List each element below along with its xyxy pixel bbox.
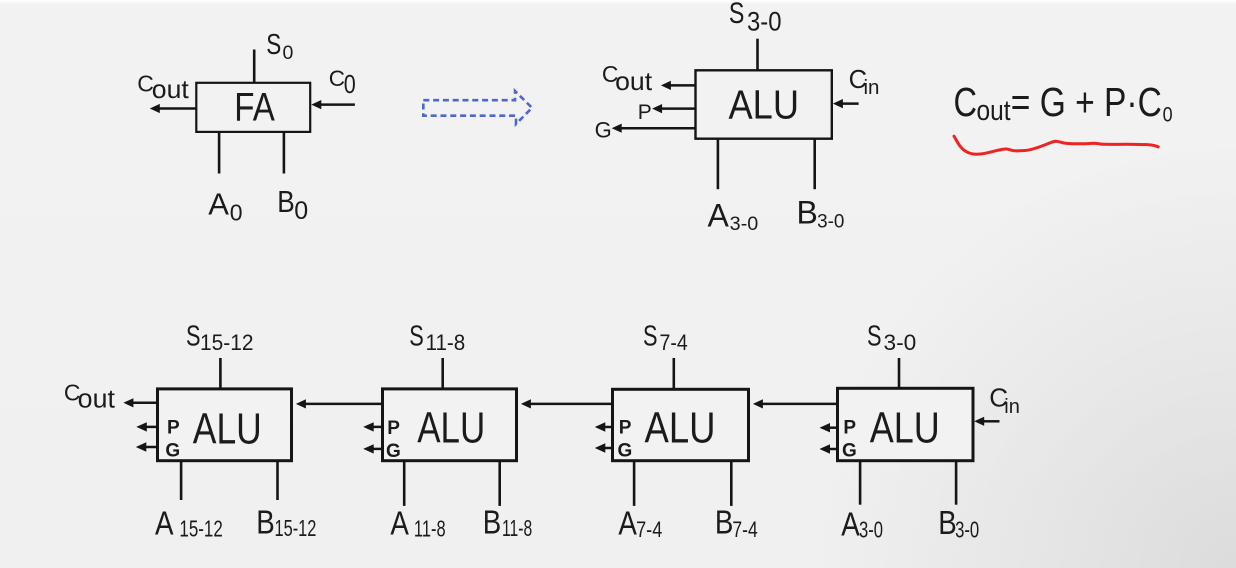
- svg-text:0: 0: [230, 199, 243, 225]
- wire arrow G 3: [595, 443, 613, 452]
- ALU box 3 (bits 7-4): [613, 389, 749, 460]
- label A7-4: [618, 504, 662, 542]
- svg-text:C: C: [329, 66, 345, 91]
- label C0: [329, 66, 356, 99]
- svg-text:S: S: [266, 29, 281, 61]
- label A 15-12: [155, 504, 223, 541]
- wire S0 stub: [253, 50, 256, 85]
- svg-text:S: S: [643, 321, 658, 353]
- label Cout (chain): [64, 379, 115, 413]
- svg-text:3-0: 3-0: [747, 7, 782, 37]
- svg-text:3-0: 3-0: [884, 330, 917, 355]
- label Cin (top ALU): [849, 66, 880, 99]
- svg-text:out: out: [615, 66, 653, 96]
- svg-text:S: S: [729, 0, 745, 30]
- wire arrow Cin (chain): [974, 417, 999, 426]
- svg-text:A: A: [708, 197, 730, 233]
- wire carry arrow box3 to box2: [521, 399, 613, 408]
- label Cout (top ALU): [602, 61, 653, 96]
- ALU box 1 (bits 15-12): [158, 389, 292, 461]
- svg-text:3-0: 3-0: [955, 516, 979, 542]
- label A0: [208, 187, 242, 226]
- wire arrow Cout (FA): [150, 104, 196, 113]
- ALU box 4 (bits 3-0): [838, 388, 974, 460]
- wire A3-0 stub (top): [717, 139, 720, 189]
- wire arrow G (top ALU): [612, 124, 696, 133]
- label A11-8: [390, 504, 445, 541]
- label B3-0 (top): [797, 194, 845, 232]
- svg-text:P: P: [167, 418, 180, 439]
- svg-text:G: G: [842, 441, 857, 462]
- wire arrow C0 into FA: [311, 100, 355, 109]
- wire S3-0 stub: [756, 39, 759, 71]
- label B0: [277, 184, 308, 225]
- svg-text:B: B: [277, 184, 295, 219]
- wire arrow P (top ALU): [652, 104, 696, 113]
- blue dashed block arrow: [423, 91, 532, 124]
- svg-text:in: in: [864, 76, 880, 99]
- label S3-0 (chain): [867, 321, 916, 356]
- svg-text:G: G: [386, 441, 401, 462]
- svg-text:7-4: 7-4: [732, 517, 757, 542]
- svg-text:A: A: [208, 187, 229, 222]
- svg-text:15-12: 15-12: [275, 515, 317, 541]
- svg-text:out: out: [78, 386, 115, 414]
- svg-text:G: G: [165, 441, 180, 462]
- label A3-0 (top): [708, 197, 759, 235]
- wire S3-0 stub (chain): [898, 358, 901, 389]
- svg-text:S: S: [409, 321, 424, 353]
- ALU box 2 (bits 11-8): [383, 389, 517, 461]
- svg-text:7-4: 7-4: [660, 330, 688, 355]
- label S15-12: [186, 321, 254, 356]
- svg-text:ALU: ALU: [193, 404, 262, 453]
- svg-text:B: B: [483, 504, 502, 541]
- wire arrow G 4: [820, 444, 839, 453]
- svg-text:G: G: [618, 441, 633, 462]
- svg-text:P: P: [387, 418, 400, 439]
- wire carry arrow box2 to box1: [296, 399, 383, 408]
- svg-text:in: in: [1004, 396, 1020, 418]
- svg-text:= G + P·C: = G + P·C: [1011, 79, 1162, 125]
- wire arrow P 1: [136, 422, 158, 431]
- svg-text:P: P: [843, 418, 856, 439]
- svg-text:A: A: [841, 505, 860, 542]
- svg-text:S: S: [186, 321, 201, 353]
- label S0: [266, 29, 293, 64]
- label B3-0 (chain): [938, 504, 979, 542]
- svg-text:0: 0: [1163, 102, 1173, 126]
- svg-text:P: P: [619, 418, 632, 439]
- wire arrow P 4: [820, 423, 839, 432]
- svg-text:ALU: ALU: [417, 404, 485, 453]
- wire B4 stub: [955, 460, 958, 505]
- label B11-8: [483, 504, 532, 541]
- svg-text:ALU: ALU: [645, 404, 716, 453]
- svg-text:C: C: [954, 79, 978, 125]
- wire arrow Cout (top ALU): [661, 81, 696, 90]
- wire A4 stub: [859, 460, 862, 505]
- wire A2 stub: [403, 460, 406, 506]
- svg-text:11-8: 11-8: [426, 330, 466, 355]
- svg-text:3-0: 3-0: [859, 516, 883, 542]
- svg-text:B: B: [715, 504, 734, 541]
- svg-text:0: 0: [294, 197, 308, 225]
- wire arrow Cin (top ALU): [833, 99, 859, 108]
- wire arrow G 2: [363, 444, 383, 453]
- svg-text:15-12: 15-12: [179, 516, 222, 542]
- svg-text:A: A: [390, 504, 409, 541]
- svg-text:ALU: ALU: [870, 404, 940, 453]
- label A3-0 (chain): [841, 505, 883, 542]
- svg-text:0: 0: [283, 42, 294, 64]
- wire A1 stub: [180, 460, 183, 500]
- label S7-4: [643, 321, 688, 356]
- svg-text:3-0: 3-0: [730, 213, 759, 235]
- svg-text:0: 0: [344, 71, 356, 99]
- wire B3-0 stub (top): [813, 139, 816, 189]
- label S3-0: [729, 0, 782, 37]
- wire arrow Cout (chain): [123, 398, 157, 407]
- svg-text:out: out: [152, 74, 190, 104]
- wire arrow P 2: [363, 422, 383, 431]
- wire arrow G 1: [136, 442, 158, 451]
- label Cout: [137, 70, 189, 104]
- svg-text:11-8: 11-8: [502, 515, 532, 541]
- label B7-4: [715, 504, 758, 542]
- svg-text:P: P: [638, 101, 652, 124]
- svg-text:B: B: [938, 504, 957, 541]
- svg-text:out: out: [977, 95, 1011, 127]
- svg-text:11-8: 11-8: [414, 516, 446, 542]
- svg-text:7-4: 7-4: [636, 517, 662, 542]
- wire B3 stub: [730, 460, 733, 506]
- wire arrow P 3: [595, 422, 613, 431]
- svg-text:S: S: [867, 321, 882, 353]
- wire B0 stub: [283, 132, 286, 174]
- wire B2 stub: [498, 460, 501, 506]
- svg-text:A: A: [618, 504, 637, 541]
- wire S11-8 stub: [441, 358, 444, 389]
- wire S7-4 stub: [672, 358, 675, 390]
- svg-text:A: A: [155, 504, 174, 541]
- wire B1 stub: [276, 460, 279, 500]
- wire A0 stub: [218, 132, 221, 174]
- svg-text:FA: FA: [234, 86, 275, 130]
- svg-text:ALU: ALU: [729, 82, 800, 128]
- red underline squiggle: [954, 136, 1158, 154]
- full adder FA box: [196, 83, 310, 132]
- svg-text:G: G: [595, 117, 612, 142]
- label B15-12: [256, 504, 316, 541]
- svg-text:B: B: [256, 504, 275, 541]
- svg-text:15-12: 15-12: [200, 330, 254, 355]
- wire S15-12 stub: [219, 358, 222, 389]
- label S11-8: [409, 321, 465, 356]
- formula Cout = G + P . C0: [954, 79, 1173, 127]
- label Cin (chain): [989, 383, 1020, 418]
- svg-text:B: B: [797, 194, 818, 230]
- wire A3 stub: [633, 460, 636, 506]
- svg-text:3-0: 3-0: [817, 211, 844, 233]
- wire carry arrow box4 to box3: [753, 399, 838, 408]
- ALU box (top): [696, 70, 832, 138]
